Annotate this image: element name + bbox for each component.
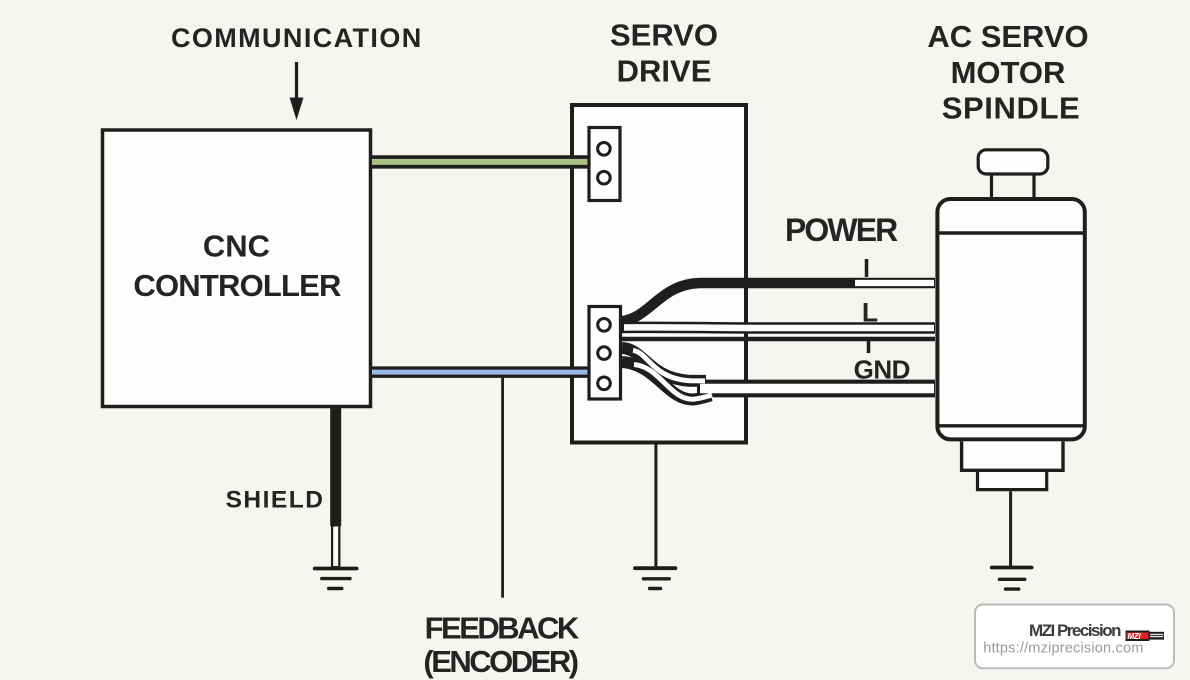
svg-text:L: L (862, 298, 878, 328)
svg-text:SERVO: SERVO (610, 18, 718, 53)
svg-text:CNC: CNC (203, 228, 270, 263)
svg-text:SPINDLE: SPINDLE (942, 91, 1081, 126)
svg-text:MOTOR: MOTOR (951, 55, 1066, 90)
svg-text:AC SERVO: AC SERVO (927, 19, 1088, 54)
svg-text:(ENCODER): (ENCODER) (423, 644, 577, 679)
svg-text:MZI: MZI (1128, 632, 1142, 641)
svg-text:POWER: POWER (785, 212, 898, 248)
svg-text:DRIVE: DRIVE (617, 53, 712, 88)
svg-text:MZI Precision: MZI Precision (1029, 621, 1121, 640)
svg-text:COMMUNICATION: COMMUNICATION (171, 23, 423, 53)
svg-text:GND: GND (854, 355, 910, 385)
svg-text:SHIELD: SHIELD (226, 487, 325, 514)
svg-text:https://mziprecision.com: https://mziprecision.com (983, 641, 1143, 657)
svg-text:CONTROLLER: CONTROLLER (133, 268, 341, 303)
svg-text:FEEDBACK: FEEDBACK (425, 611, 580, 646)
